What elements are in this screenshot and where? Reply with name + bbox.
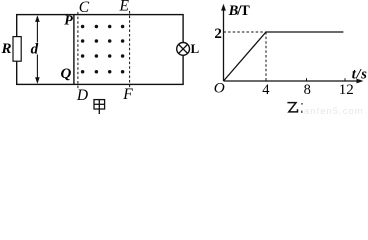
dashed guide vertical at t=4 [265,32,267,81]
lamp L (circle with cross on right conductor) [177,43,190,56]
svg-text:R: R [1,41,12,57]
svg-text:2: 2 [214,26,222,42]
caption 甲 (drawn as strokes) [94,100,105,114]
tick t=12 [344,78,346,81]
svg-text:8: 8 [304,82,311,98]
tick t=8 [306,78,308,81]
tick t=4 [265,78,267,81]
svg-text:D: D [76,87,88,104]
svg-text:C: C [79,0,90,16]
svg-text:anfen5.com: anfen5.com [304,106,364,117]
svg-text:d: d [31,41,39,57]
stray mark (speck) [301,103,303,105]
svg-text:12: 12 [339,82,354,98]
svg-text:t/s: t/s [352,66,368,82]
svg-text:F: F [122,86,133,103]
dimension arrow d (double-headed vertical arrow between rails) [36,17,38,82]
resistor R [13,37,21,62]
dashed field boundary line C-D [77,12,79,90]
caption 乙 (drawn as strokes) [287,103,297,112]
magnetic field dots (B out of page) [81,25,125,74]
svg-text:O: O [214,80,225,97]
curve: constant level from (4,2) to end [266,31,343,33]
svg-text:L: L [191,41,200,56]
stray mark (speck 2) [301,111,303,113]
dashed guide horizontal at B=2 [224,31,267,33]
dashed field boundary line E-F [129,11,131,89]
svg-text:4: 4 [262,82,270,98]
graph: t axis (horizontal, arrow at right) [224,80,360,82]
svg-text:Q: Q [61,66,72,82]
conducting rod PQ [73,15,75,85]
svg-text:P: P [64,14,73,29]
graph: B axis (vertical, arrow at top) [223,8,225,81]
curve: ramp from O to (4,2) [224,32,267,81]
svg-text:E: E [119,0,130,15]
svg-text:B/T: B/T [228,3,251,19]
wire: outer circuit rectangle (top rail, bottom rail, left and right conductors) [17,15,183,85]
